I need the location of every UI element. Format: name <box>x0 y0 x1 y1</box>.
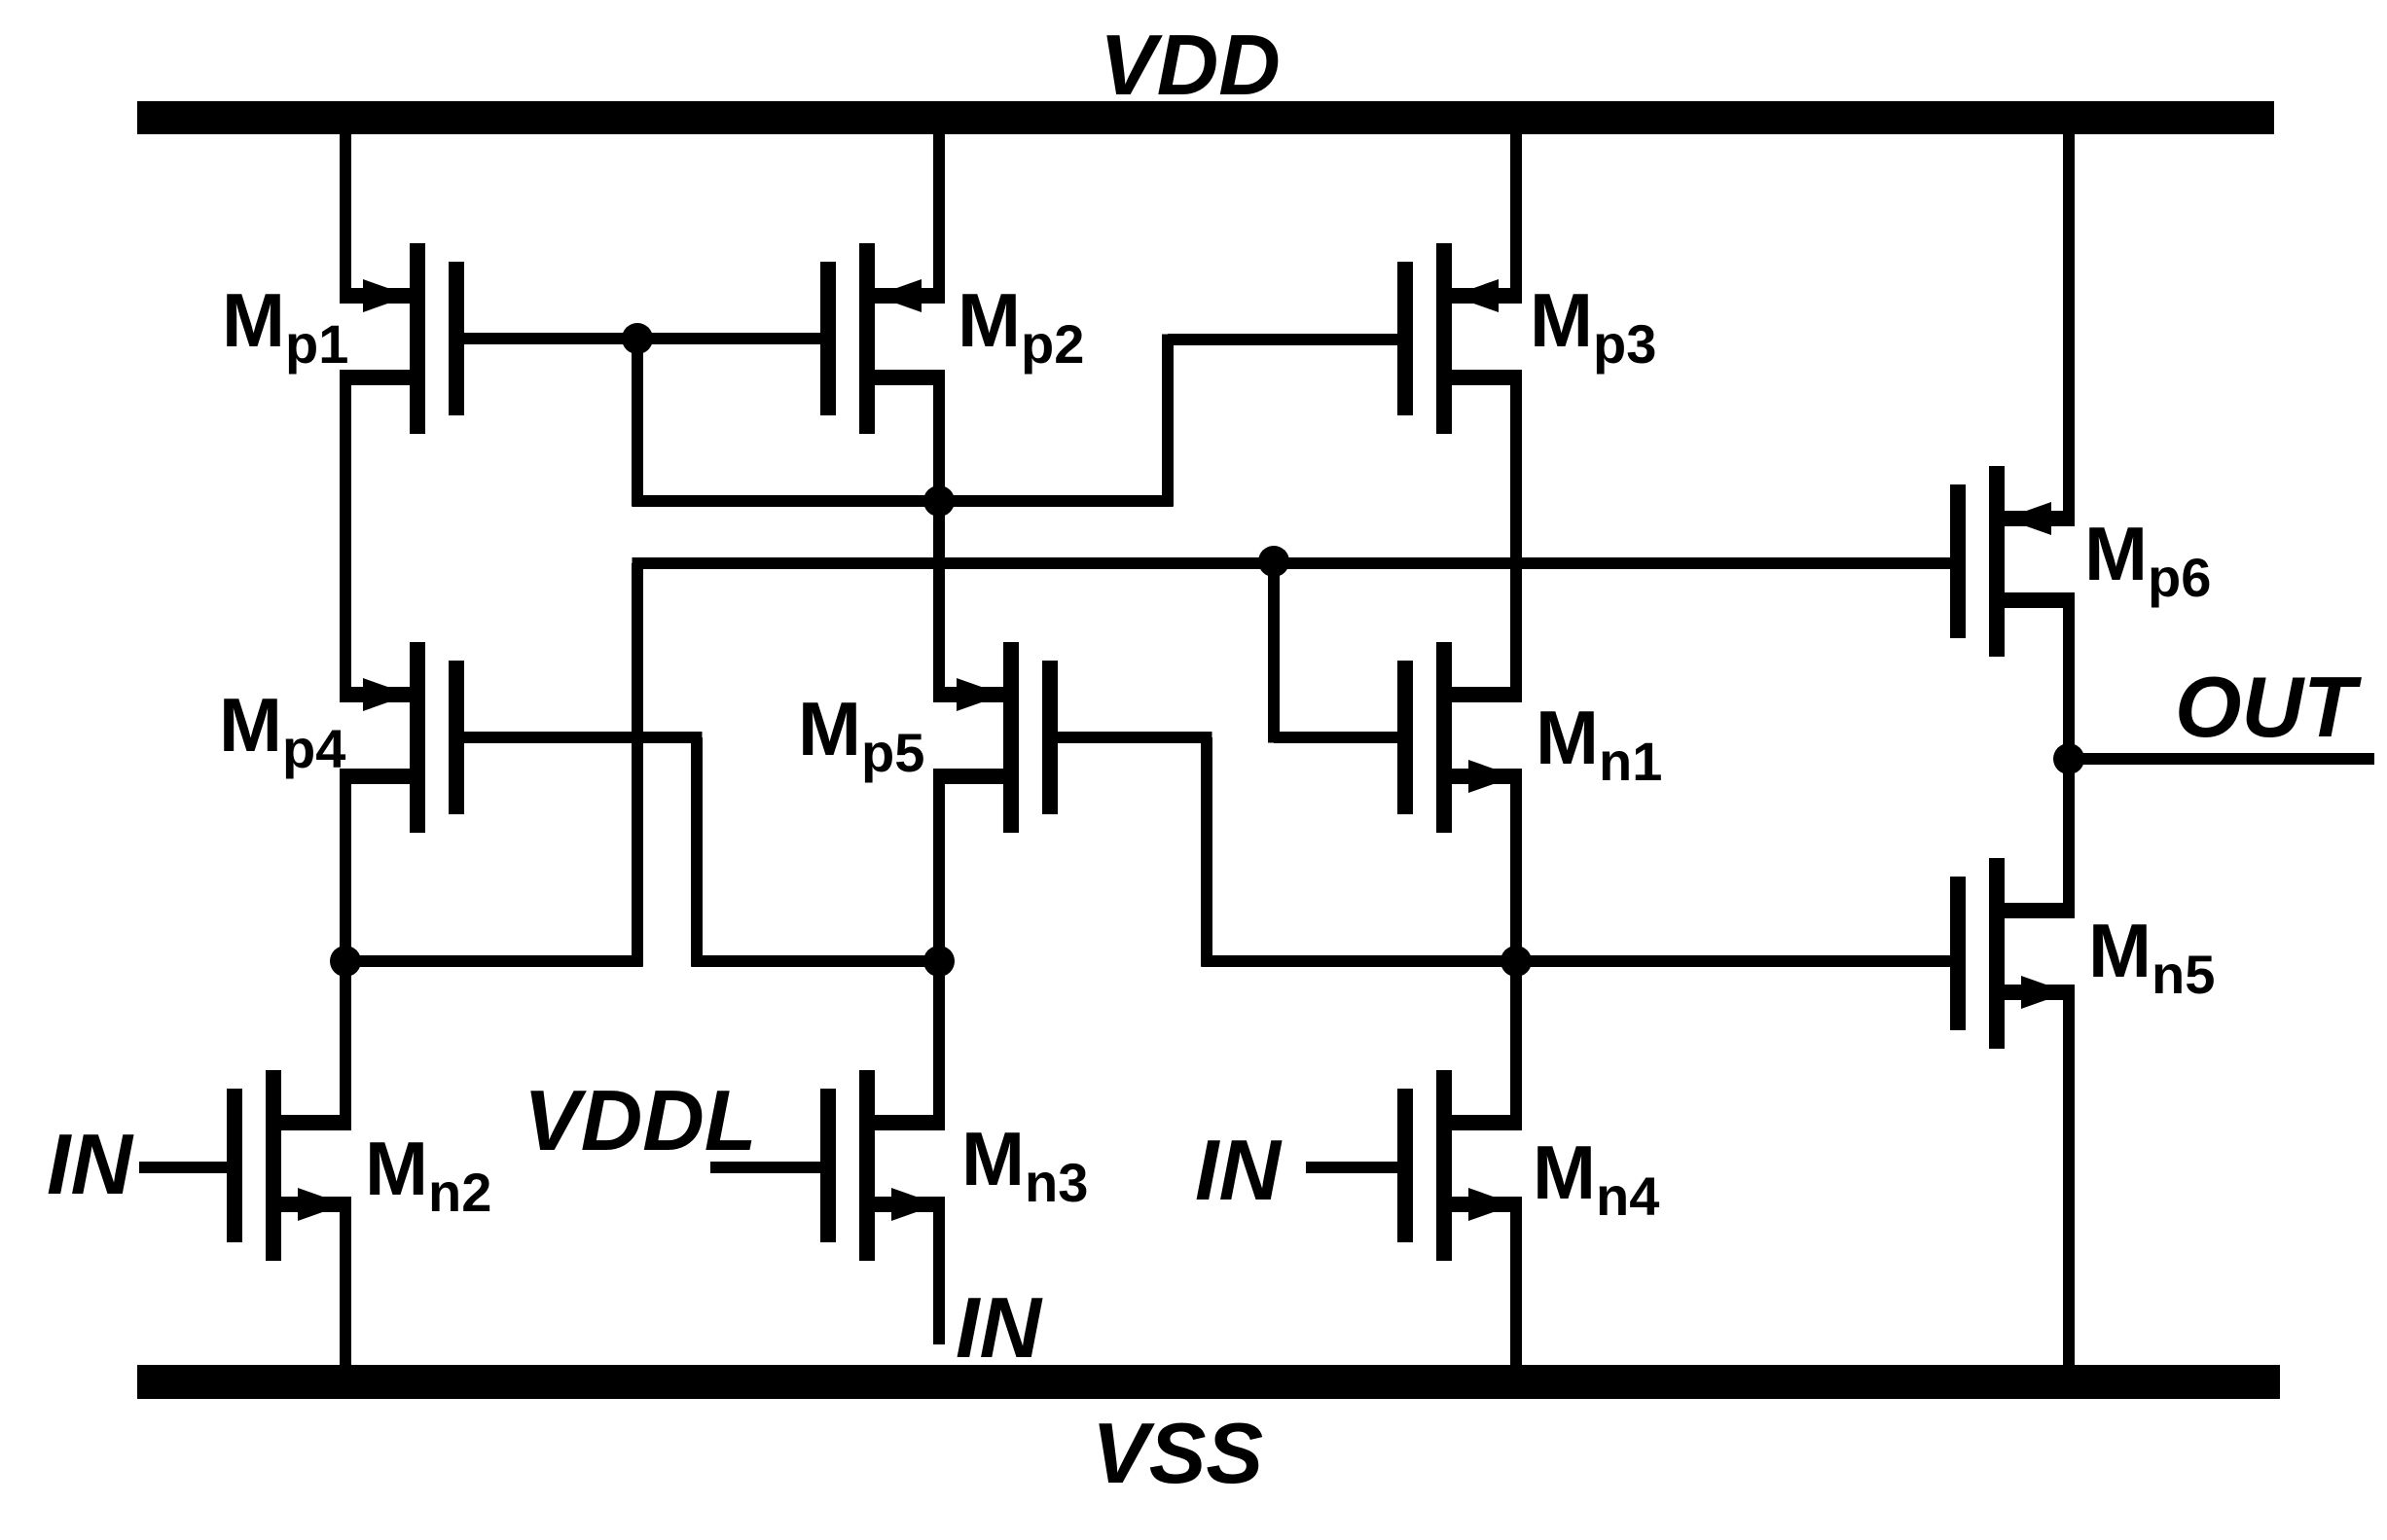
wire Mn5 source to VSS <box>2063 985 2075 1365</box>
transistor Mn5 <box>1950 858 2075 1049</box>
svg-text:Mp5: Mp5 <box>798 686 924 783</box>
transistor Mp6 <box>1950 466 2075 657</box>
node A junction at Mp4 drain <box>330 946 361 977</box>
wire Mp4 gate riser down <box>691 737 703 967</box>
wire Mp4 gate lead <box>463 732 703 743</box>
svg-text:VDDL: VDDL <box>524 1072 757 1168</box>
transistor Mn1 <box>1397 642 1522 833</box>
svg-text:Mn2: Mn2 <box>365 1126 491 1223</box>
svg-text:Mn1: Mn1 <box>1536 695 1662 792</box>
transistor Mp3 <box>1397 243 1522 434</box>
wire IN lead to Mn4 gate <box>1306 1162 1398 1173</box>
wire to Mp3 gate <box>1168 334 1398 345</box>
wire to Mn1 gate <box>1274 732 1398 743</box>
wire Mp6 drain to OUT node and Mn5 drain <box>2063 593 2075 917</box>
wire Mp5 gate to Mn5 gate (long horizontal) <box>1202 955 1952 967</box>
wire VDD to Mp3 source <box>1510 130 1522 303</box>
wire tap down to Mn1 gate <box>1268 561 1280 743</box>
svg-text:Mp2: Mp2 <box>958 277 1084 375</box>
wire junction down to diode net <box>632 339 643 507</box>
svg-text:Mn3: Mn3 <box>961 1116 1088 1213</box>
node Mn1 gate tap junction <box>1258 546 1289 577</box>
transistor Mp4 <box>340 642 464 833</box>
transistor Mp2 <box>820 243 945 434</box>
transistor Mp5 <box>933 642 1058 833</box>
svg-text:Mp3: Mp3 <box>1530 277 1656 375</box>
svg-text:Mp1: Mp1 <box>222 277 348 375</box>
node OUT junction <box>2053 743 2084 774</box>
wire Mp1 gate to Mp2 gate <box>462 333 821 344</box>
wire node A to Mp6 gate (long horizontal) <box>633 557 1952 569</box>
wire node A horizontal from Mp4 drain <box>345 955 643 967</box>
power rail VDD <box>137 101 2274 134</box>
transistor Mn4 <box>1397 1070 1522 1261</box>
svg-text:Mp6: Mp6 <box>2084 511 2211 608</box>
svg-text:Mn5: Mn5 <box>2088 908 2215 1005</box>
wire IN lead to Mn2 gate <box>139 1162 229 1173</box>
transistor Mn3 <box>820 1070 945 1261</box>
wire Mp4 drain to Mn2 drain (node A) <box>340 770 351 1129</box>
svg-text:VDD: VDD <box>1100 17 1281 113</box>
svg-text:IN: IN <box>47 1116 134 1212</box>
wire Mp2 drain net horizontal <box>633 495 1174 507</box>
wire riser to Mp3 gate <box>1162 335 1174 507</box>
power rail VSS <box>137 1365 2280 1399</box>
node Mp2 drain junction <box>923 485 955 517</box>
wire Mp5 gate lead <box>1056 732 1212 743</box>
wire Mp2 drain to Mp5 source <box>933 371 945 702</box>
wire Mp5 gate riser down <box>1201 737 1212 967</box>
wire VDD to Mp6 source <box>2063 130 2075 525</box>
transistor Mn2 <box>227 1070 351 1261</box>
wire OUT stub <box>2069 753 2374 765</box>
wire Mp3 drain to Mn1 drain <box>1510 371 1522 702</box>
svg-text:OUT: OUT <box>2175 659 2362 755</box>
wire Mn4 source to VSS <box>1510 1198 1522 1365</box>
svg-text:Mp4: Mp4 <box>219 682 345 779</box>
wire Mn2 source to VSS <box>340 1198 351 1365</box>
node C junction at Mn1 source column <box>1501 946 1532 977</box>
wire VDDL lead to Mn3 gate <box>710 1162 821 1173</box>
wire Mp5 drain to Mn3 drain <box>933 770 945 1129</box>
node B junction at Mp5 source column <box>923 946 955 977</box>
svg-text:Mn4: Mn4 <box>1533 1129 1659 1227</box>
transistor Mp1 <box>340 243 464 434</box>
svg-text:IN: IN <box>956 1279 1043 1376</box>
node Mp1 gate junction <box>622 323 653 354</box>
wire VDD to Mp2 source <box>933 130 945 303</box>
wire Mn1 source to Mn4 drain <box>1510 770 1522 1129</box>
svg-text:VSS: VSS <box>1092 1405 1263 1501</box>
wire Mp1 drain to Mp4 source <box>340 371 351 702</box>
wire Mn3 source to IN terminal <box>933 1198 945 1344</box>
wire VDD to Mp1 source <box>340 130 351 303</box>
svg-text:IN: IN <box>1195 1122 1283 1218</box>
wire node A riser <box>632 563 643 967</box>
wire Mp4 gate to node B <box>692 955 940 967</box>
